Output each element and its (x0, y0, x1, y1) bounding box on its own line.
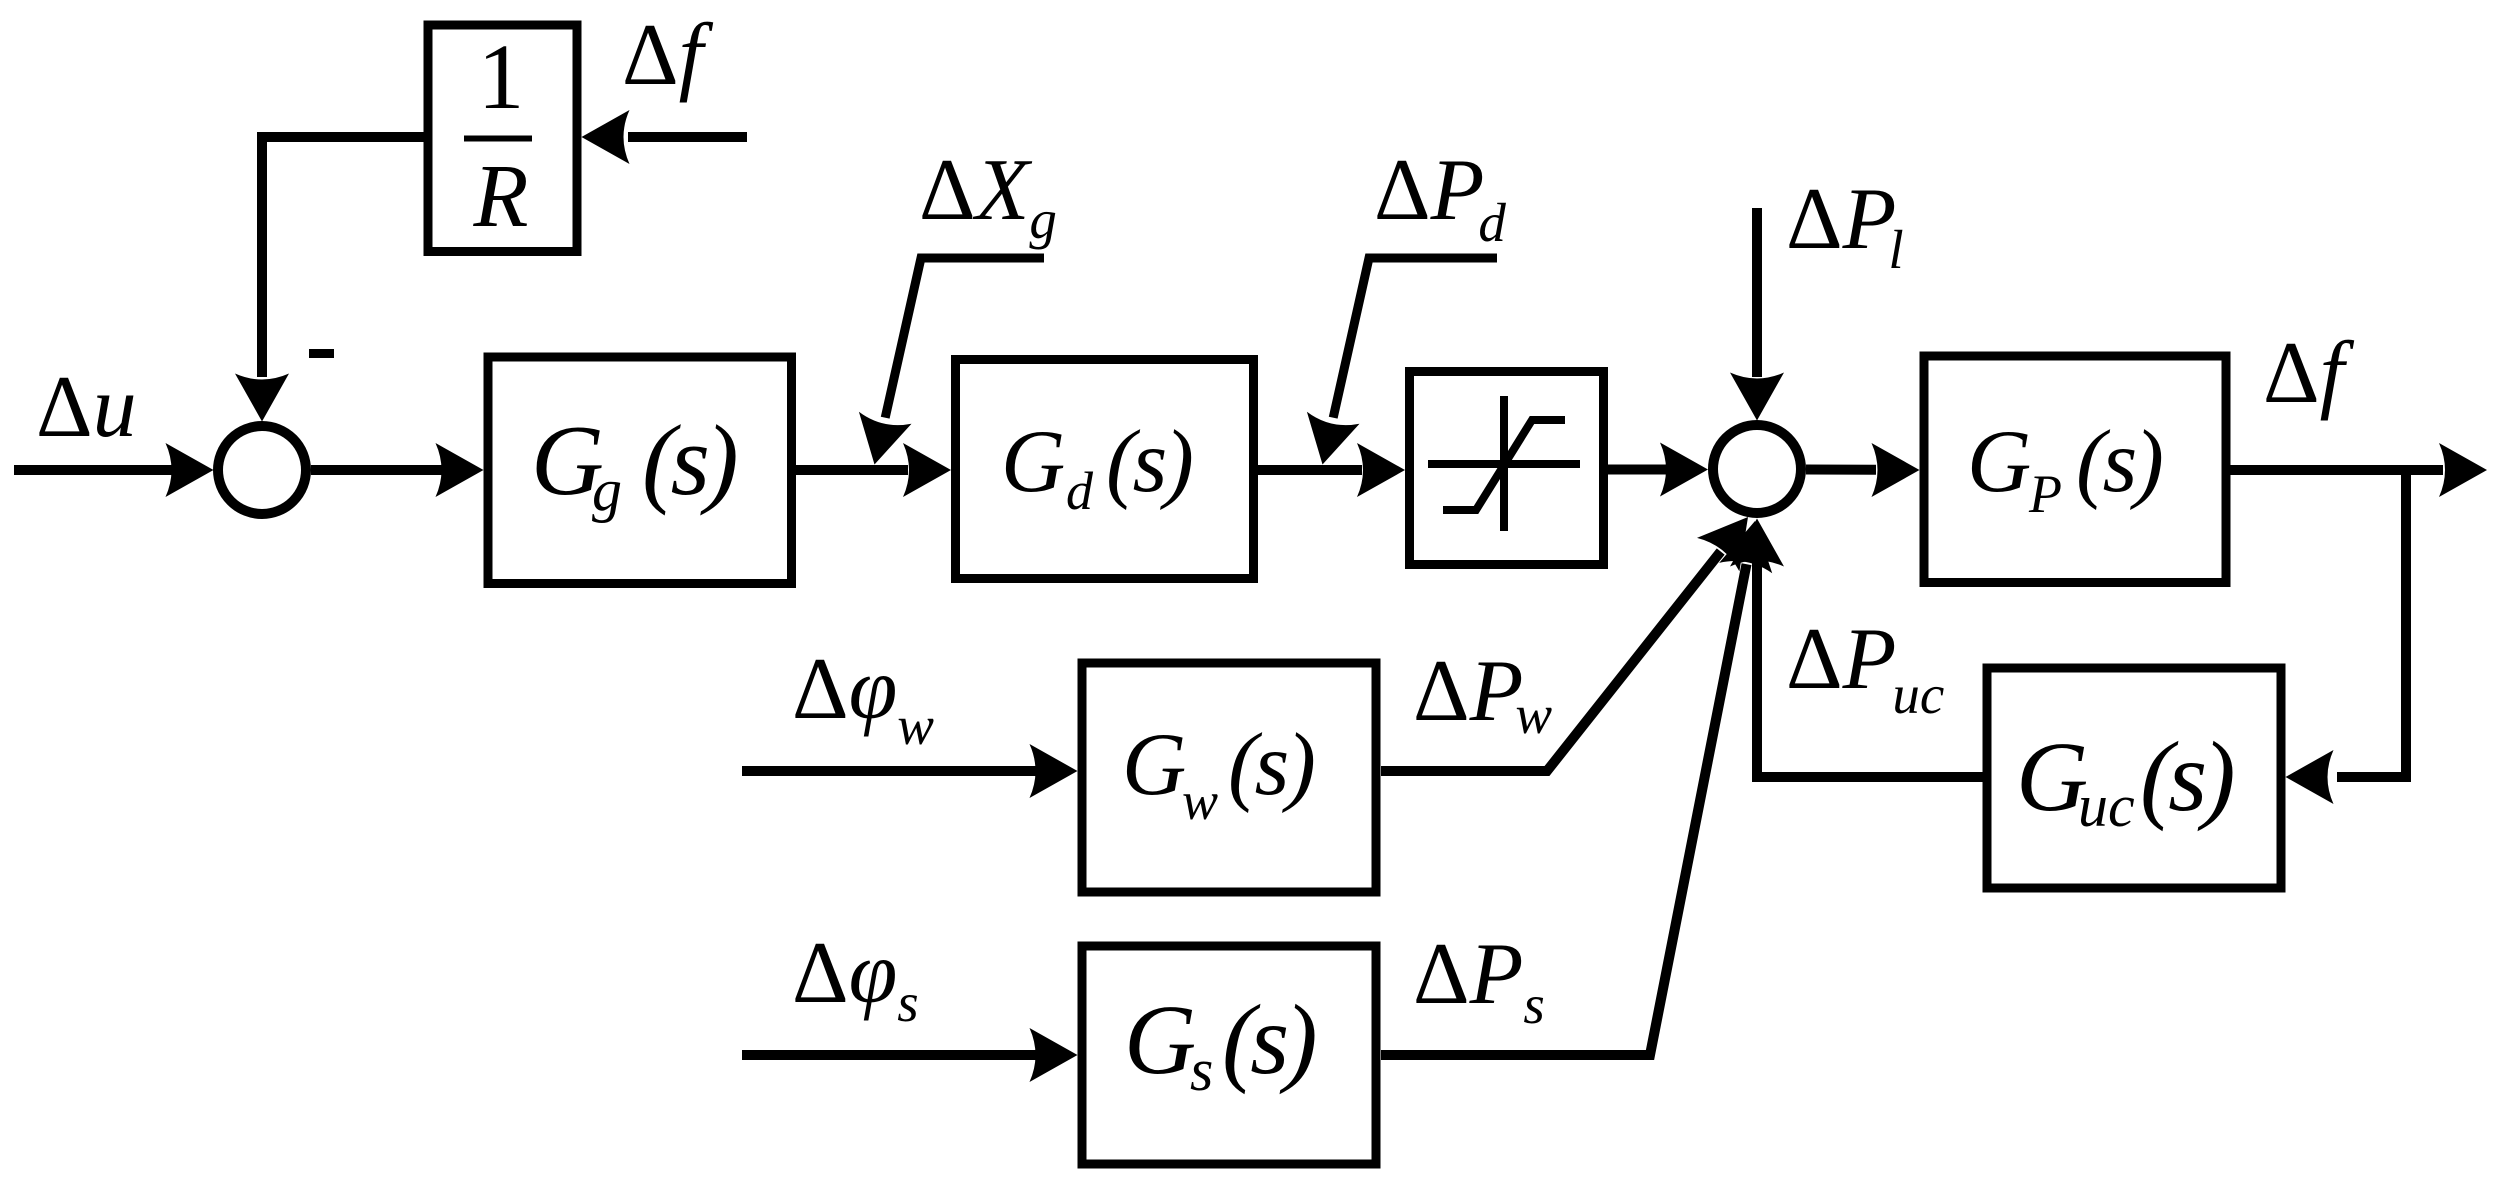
callout line Delta-Pd (1333, 258, 1497, 418)
wire Delta-f into 1/R (628, 132, 747, 142)
callout line Delta-Xg (885, 258, 1044, 418)
limiter block (saturation) (1410, 372, 1604, 565)
wire Delta-phi-w input to Gw (742, 766, 1036, 776)
block Gw(s) wind (1082, 663, 1376, 892)
svg-text:ΔPw: ΔPw (1413, 643, 1552, 745)
block Gs(s) solar (1082, 946, 1376, 1164)
svg-text:Δu: Δu (36, 359, 137, 456)
block 1/R (droop) (428, 25, 577, 252)
svg-text:g: g (592, 457, 622, 523)
svg-text:Δφs: Δφs (792, 925, 919, 1033)
svg-text:uc: uc (2078, 773, 2135, 839)
wire limiter to junction2 (1608, 465, 1666, 475)
svg-text:Δf: Δf (622, 7, 714, 104)
svg-text:d: d (1066, 461, 1094, 521)
wire junction2 to GP (1806, 465, 1876, 475)
svg-text:ΔPl: ΔPl (1786, 171, 1904, 280)
wire 1/R output down to junction1 (262, 137, 428, 377)
svg-text:Δφw: Δφw (792, 641, 934, 756)
svg-text:1: 1 (478, 26, 525, 129)
wire Gg to Gd (796, 465, 908, 475)
svg-text:R: R (473, 147, 529, 246)
svg-text:(s): (s) (1228, 716, 1313, 814)
block Gg(s) governor (488, 357, 792, 584)
svg-text:G: G (1001, 413, 1065, 511)
wire output branch down to feedback (2337, 470, 2406, 777)
svg-text:(s): (s) (2140, 721, 2233, 832)
wire Gw output Delta-Pw to junction2 (1381, 552, 1721, 772)
svg-text:ΔPd: ΔPd (1374, 142, 1506, 253)
limiter symbol horizontal axis (1428, 460, 1580, 468)
summing junction 1 (218, 426, 306, 514)
svg-text:ΔXg: ΔXg (919, 142, 1057, 250)
wire Delta-phi-s input to Gs (742, 1050, 1036, 1060)
wire Gs output Delta-Ps to junction2 (1381, 564, 1747, 1055)
svg-text:G: G (1967, 413, 2031, 511)
block GP(s) power system (1924, 356, 2226, 583)
wire junction1 to Gg (311, 465, 442, 475)
svg-text:(s): (s) (1222, 984, 1315, 1095)
svg-text:ΔPs: ΔPs (1413, 926, 1545, 1035)
svg-text:(s): (s) (1106, 413, 1191, 511)
svg-text:G: G (1122, 716, 1186, 814)
minus sign at summing junction 1 (309, 349, 334, 358)
limiter symbol saturation curve (1443, 420, 1565, 510)
block Guc(s) (1987, 668, 2281, 888)
wire Gd to limiter (1258, 465, 1362, 475)
wire Delta-Pl input down to junction2 (1752, 208, 1762, 377)
wire GP output Delta-f (2231, 465, 2444, 475)
fraction bar of 1/R (464, 136, 532, 142)
block Gd(s) (956, 360, 1254, 579)
svg-text:ΔPuc: ΔPuc (1786, 611, 1944, 725)
svg-text:G: G (1124, 984, 1196, 1095)
wire Delta-u input (14, 465, 175, 475)
svg-text:s: s (1190, 1037, 1213, 1103)
svg-text:P: P (2028, 464, 2062, 524)
summing junction 2 (1713, 425, 1801, 513)
wire Guc output Delta-Puc up to junction2 (1757, 563, 1983, 777)
limiter symbol vertical axis (1500, 396, 1508, 531)
svg-text:(s): (s) (642, 404, 736, 516)
svg-text:Δf: Δf (2263, 325, 2355, 422)
svg-text:(s): (s) (2076, 413, 2161, 511)
svg-text:w: w (1182, 771, 1218, 831)
